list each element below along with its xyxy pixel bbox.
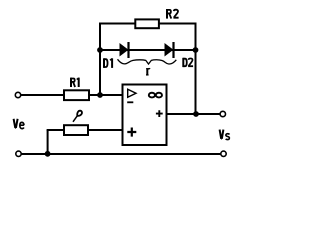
junction diode row right bbox=[193, 47, 199, 53]
terminal input bottom bbox=[16, 151, 21, 156]
op-amp U1 bbox=[123, 85, 167, 146]
node Ve label bbox=[14, 119, 24, 129]
wire potentiometer to non-inverting input bbox=[88, 129, 122, 131]
diode D2 bbox=[165, 42, 193, 67]
wire potentiometer branch horizontal bbox=[47, 129, 64, 131]
terminal input top bbox=[15, 92, 20, 97]
wire ground rail bbox=[21, 153, 221, 155]
resistor R1 bbox=[64, 78, 89, 101]
node r (diode incremental resistance squiggle) bbox=[118, 59, 177, 75]
junction ground rail node bbox=[45, 151, 51, 157]
resistor R2 bbox=[135, 9, 178, 28]
wire op-amp output bbox=[167, 113, 221, 115]
junction inverting input node bbox=[97, 92, 103, 98]
wire potentiometer branch vertical bbox=[47, 130, 49, 154]
junction diode row left bbox=[97, 47, 103, 53]
diode D1 bbox=[104, 42, 129, 68]
wire R1 to inverting input bbox=[89, 94, 122, 96]
wire input to R1 bbox=[21, 94, 64, 96]
wire left feedback vertical bbox=[99, 23, 101, 96]
wire right feedback vertical bbox=[195, 23, 197, 115]
junction output node bbox=[193, 111, 199, 117]
terminal output bottom bbox=[221, 151, 226, 156]
terminal output top bbox=[220, 111, 225, 116]
wire diode row bbox=[100, 49, 196, 51]
node Vs label bbox=[220, 130, 230, 140]
wire top feedback rail bbox=[100, 23, 196, 25]
potentiometer P bbox=[64, 111, 88, 135]
